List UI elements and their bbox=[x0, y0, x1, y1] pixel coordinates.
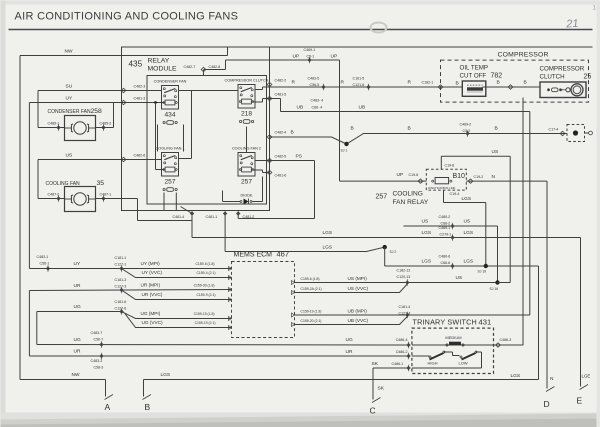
svg-text:LGS: LGS bbox=[422, 259, 432, 265]
svg-text:C159-19 (1.9): C159-19 (1.9) bbox=[301, 310, 322, 314]
svg-text:UG: UG bbox=[346, 337, 353, 343]
svg-text:SK: SK bbox=[378, 386, 385, 392]
svg-text:E: E bbox=[577, 396, 583, 406]
svg-text:C5-1: C5-1 bbox=[307, 55, 315, 59]
svg-text:SJ 2: SJ 2 bbox=[390, 250, 397, 254]
svg-text:COMPRESSOR: COMPRESSOR bbox=[498, 52, 549, 59]
svg-text:B: B bbox=[351, 126, 354, 132]
svg-text:C469-2: C469-2 bbox=[460, 123, 472, 127]
svg-text:C127-1: C127-1 bbox=[115, 263, 127, 267]
svg-text:C486-3: C486-3 bbox=[500, 338, 512, 342]
svg-text:257: 257 bbox=[241, 179, 252, 186]
svg-text:C482-4: C482-4 bbox=[275, 131, 287, 135]
svg-text:C161-5: C161-5 bbox=[353, 77, 365, 81]
svg-text:UR: UR bbox=[346, 349, 353, 355]
svg-text:C159-9 (2.1): C159-9 (2.1) bbox=[196, 293, 215, 297]
svg-text:US (MPI): US (MPI) bbox=[348, 276, 368, 281]
svg-text:C120-13: C120-13 bbox=[397, 275, 411, 279]
svg-text:CUT OFF: CUT OFF bbox=[460, 73, 487, 80]
svg-text:C481-1: C481-1 bbox=[206, 215, 218, 219]
svg-text:US: US bbox=[422, 219, 429, 225]
svg-text:C127-3: C127-3 bbox=[115, 285, 127, 289]
svg-text:218: 218 bbox=[241, 111, 252, 118]
svg-text:C483-7: C483-7 bbox=[91, 331, 103, 335]
svg-text:LGS: LGS bbox=[511, 373, 521, 379]
svg-text:UB: UB bbox=[359, 105, 366, 111]
svg-text:C480-2: C480-2 bbox=[439, 215, 451, 219]
svg-text:B: B bbox=[408, 126, 411, 132]
svg-text:UG: UG bbox=[74, 304, 81, 310]
svg-text:AIR CONDITIONING AND COOLING F: AIR CONDITIONING AND COOLING FANS bbox=[15, 11, 239, 23]
svg-text:UP: UP bbox=[397, 172, 404, 178]
svg-text:C482-6: C482-6 bbox=[134, 154, 146, 158]
svg-text:C486-4: C486-4 bbox=[396, 338, 408, 342]
svg-text:B10: B10 bbox=[453, 173, 466, 180]
svg-text:C482-5: C482-5 bbox=[275, 155, 287, 159]
svg-text:C159-4 (2.1): C159-4 (2.1) bbox=[196, 271, 215, 275]
svg-text:C56-5: C56-5 bbox=[310, 83, 320, 87]
svg-text:C482-7: C482-7 bbox=[184, 65, 196, 69]
svg-text:C159-6 (1.8): C159-6 (1.8) bbox=[301, 277, 320, 281]
svg-text:35: 35 bbox=[97, 180, 105, 187]
svg-text:C19-6: C19-6 bbox=[409, 173, 419, 177]
svg-text:N: N bbox=[492, 174, 496, 180]
svg-text:467: 467 bbox=[277, 250, 290, 259]
svg-text:C181-6: C181-6 bbox=[115, 300, 127, 304]
svg-text:434: 434 bbox=[164, 112, 175, 119]
svg-text:C159-15 (1.8): C159-15 (1.8) bbox=[194, 312, 215, 316]
svg-text:COOLING: COOLING bbox=[393, 191, 423, 198]
svg-text:435: 435 bbox=[129, 60, 143, 69]
svg-text:C485-1: C485-1 bbox=[48, 122, 60, 126]
svg-text:C159-2A (2.1): C159-2A (2.1) bbox=[301, 287, 322, 291]
svg-text:LGS: LGS bbox=[422, 230, 432, 236]
svg-text:C486-2: C486-2 bbox=[396, 350, 408, 354]
svg-text:DIODE: DIODE bbox=[240, 194, 252, 198]
svg-text:US (VVC): US (VVC) bbox=[348, 286, 369, 291]
svg-text:US: US bbox=[464, 219, 471, 225]
svg-text:C182-1: C182-1 bbox=[422, 81, 434, 85]
svg-text:UY: UY bbox=[66, 96, 73, 102]
svg-text:C481-5: C481-5 bbox=[275, 93, 287, 97]
svg-text:C487-2: C487-2 bbox=[48, 193, 60, 197]
svg-text:C480-6: C480-6 bbox=[439, 255, 451, 259]
svg-text:D: D bbox=[544, 399, 550, 409]
svg-text:C481-3: C481-3 bbox=[134, 97, 146, 101]
svg-text:C487-1: C487-1 bbox=[100, 193, 112, 197]
svg-text:MODULE: MODULE bbox=[148, 66, 178, 73]
svg-text:LGS: LGS bbox=[323, 245, 333, 251]
svg-text:C469-1: C469-1 bbox=[439, 226, 451, 230]
svg-text:B: B bbox=[495, 126, 498, 132]
svg-text:UR: UR bbox=[74, 283, 81, 289]
svg-text:C469-1: C469-1 bbox=[304, 48, 316, 52]
svg-text:SJ 16: SJ 16 bbox=[490, 287, 499, 291]
svg-text:C5-2: C5-2 bbox=[463, 129, 471, 133]
svg-text:C121-6: C121-6 bbox=[353, 83, 365, 87]
svg-text:R: R bbox=[408, 80, 412, 86]
svg-text:MEDIUM: MEDIUM bbox=[445, 335, 461, 340]
svg-text:A: A bbox=[105, 402, 111, 412]
svg-text:SJ 19: SJ 19 bbox=[478, 270, 487, 274]
svg-text:LGS: LGS bbox=[161, 372, 171, 378]
svg-text:C127-6: C127-6 bbox=[115, 307, 127, 311]
svg-text:C: C bbox=[370, 406, 376, 416]
svg-text:UB: UB bbox=[297, 105, 304, 111]
svg-text:C485-2: C485-2 bbox=[100, 122, 112, 126]
svg-text:C483-5: C483-5 bbox=[308, 77, 320, 81]
svg-text:258: 258 bbox=[91, 108, 103, 115]
svg-text:HIGH: HIGH bbox=[428, 361, 438, 366]
svg-text:CONDENSER FAN: CONDENSER FAN bbox=[48, 109, 91, 115]
svg-text:C483-3: C483-3 bbox=[91, 359, 103, 363]
svg-text:CONDENSER FAN: CONDENSER FAN bbox=[154, 80, 187, 84]
svg-text:NW: NW bbox=[65, 49, 73, 55]
svg-text:COMPRESSOR CLUTCH: COMPRESSOR CLUTCH bbox=[225, 79, 269, 83]
svg-text:C483- 4: C483- 4 bbox=[311, 99, 324, 103]
svg-text:25: 25 bbox=[584, 74, 592, 81]
svg-text:SJ 1: SJ 1 bbox=[341, 149, 348, 153]
svg-text:N: N bbox=[550, 376, 554, 382]
svg-text:C483-1: C483-1 bbox=[37, 255, 49, 259]
svg-text:C159-19 (2.1): C159-19 (2.1) bbox=[195, 321, 216, 325]
svg-text:UY (MPI): UY (MPI) bbox=[141, 261, 161, 266]
svg-text:PS: PS bbox=[296, 154, 302, 160]
svg-text:US: US bbox=[456, 275, 463, 281]
svg-text:B: B bbox=[497, 80, 500, 86]
svg-text:257: 257 bbox=[164, 179, 175, 186]
svg-text:B: B bbox=[291, 130, 294, 136]
svg-text:C182-13: C182-13 bbox=[397, 269, 411, 273]
svg-text:LGS: LGS bbox=[462, 196, 472, 202]
svg-text:R: R bbox=[292, 80, 296, 86]
svg-text:UR (VVC): UR (VVC) bbox=[142, 292, 163, 297]
svg-text:C159-20 (2.1): C159-20 (2.1) bbox=[301, 319, 322, 323]
svg-text:C66-6: C66-6 bbox=[441, 261, 451, 265]
svg-text:C66- 4: C66- 4 bbox=[312, 106, 323, 110]
svg-text:LGS: LGS bbox=[323, 230, 333, 236]
svg-text:COOLING FAN: COOLING FAN bbox=[46, 181, 81, 187]
svg-text:B: B bbox=[456, 81, 459, 87]
svg-text:C181-3: C181-3 bbox=[115, 278, 127, 282]
svg-text:UG: UG bbox=[74, 337, 81, 343]
svg-text:C481-4: C481-4 bbox=[173, 215, 185, 219]
svg-text:SK: SK bbox=[372, 361, 379, 367]
svg-text:MEMS ECM: MEMS ECM bbox=[234, 252, 273, 259]
svg-text:431: 431 bbox=[479, 318, 492, 327]
svg-text:UR: UR bbox=[74, 349, 81, 355]
svg-text:OIL TEMP: OIL TEMP bbox=[460, 65, 489, 72]
svg-text:UY (VVC): UY (VVC) bbox=[142, 270, 163, 275]
svg-text:C482-8: C482-8 bbox=[209, 65, 221, 69]
svg-text:SU: SU bbox=[66, 84, 73, 90]
svg-text:C56-7: C56-7 bbox=[94, 338, 104, 342]
svg-text:LGS: LGS bbox=[464, 259, 474, 265]
svg-text:C279-1: C279-1 bbox=[440, 233, 452, 237]
svg-text:C56-1: C56-1 bbox=[40, 262, 50, 266]
svg-text:LGE: LGE bbox=[582, 374, 591, 379]
svg-text:RELAY: RELAY bbox=[148, 58, 170, 65]
svg-text:C19-8: C19-8 bbox=[445, 164, 455, 168]
svg-text:C19-4: C19-4 bbox=[450, 192, 460, 196]
svg-text:US: US bbox=[66, 153, 73, 159]
svg-text:C481-6: C481-6 bbox=[275, 174, 287, 178]
svg-text:UB (VVC): UB (VVC) bbox=[348, 318, 369, 323]
svg-text:257: 257 bbox=[376, 194, 388, 201]
svg-text:FAN RELAY: FAN RELAY bbox=[393, 199, 429, 206]
svg-text:UP: UP bbox=[293, 54, 300, 60]
svg-text:B: B bbox=[145, 402, 151, 412]
svg-text:C482-2: C482-2 bbox=[275, 79, 287, 83]
svg-text:C58-3: C58-3 bbox=[94, 366, 104, 370]
svg-text:UG (MPI): UG (MPI) bbox=[141, 311, 161, 316]
svg-text:LGS: LGS bbox=[464, 230, 474, 236]
svg-text:LOW: LOW bbox=[459, 361, 468, 366]
svg-text:C181-4: C181-4 bbox=[399, 305, 411, 309]
svg-text:R: R bbox=[341, 80, 345, 86]
svg-text:B: B bbox=[524, 80, 527, 86]
svg-text:COMPRESSOR: COMPRESSOR bbox=[540, 66, 585, 73]
svg-text:US: US bbox=[492, 149, 499, 155]
svg-text:C486-1: C486-1 bbox=[392, 362, 404, 366]
svg-text:C159-5 (1.8): C159-5 (1.8) bbox=[195, 262, 214, 266]
svg-text:JUNCTION BOX LINK: JUNCTION BOX LINK bbox=[428, 186, 456, 190]
svg-text:C19-2: C19-2 bbox=[474, 175, 484, 179]
svg-text:C481-2: C481-2 bbox=[243, 215, 255, 219]
svg-text:TRINARY SWITCH: TRINARY SWITCH bbox=[413, 318, 477, 327]
svg-text:UY: UY bbox=[74, 261, 81, 267]
svg-text:UP: UP bbox=[331, 54, 338, 60]
svg-text:UR (MPI): UR (MPI) bbox=[141, 283, 161, 288]
svg-text:CLUTCH: CLUTCH bbox=[540, 74, 565, 81]
svg-text:C181-1: C181-1 bbox=[115, 256, 127, 260]
svg-text:C17-4: C17-4 bbox=[549, 128, 559, 132]
svg-text:782: 782 bbox=[491, 73, 503, 80]
svg-text:UG (VVC): UG (VVC) bbox=[142, 320, 164, 325]
svg-text:C159-30 (1.8): C159-30 (1.8) bbox=[194, 284, 215, 288]
svg-text:UB (MPI): UB (MPI) bbox=[348, 309, 368, 314]
svg-text:21: 21 bbox=[565, 18, 579, 31]
svg-text:COOLING FAN 1: COOLING FAN 1 bbox=[155, 147, 184, 151]
svg-text:C482-3: C482-3 bbox=[134, 85, 146, 89]
svg-text:NW: NW bbox=[72, 372, 80, 378]
svg-text:C66-2: C66-2 bbox=[441, 222, 451, 226]
